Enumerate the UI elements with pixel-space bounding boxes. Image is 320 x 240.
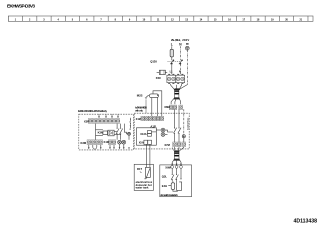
svg-text:Q1DI: Q1DI — [150, 60, 157, 64]
svg-text:F2C: F2C — [156, 76, 162, 80]
svg-text:E4H: E4H — [162, 184, 167, 188]
svg-text:X7M: X7M — [164, 143, 170, 147]
svg-text:X5A: X5A — [139, 140, 144, 144]
svg-text:with only: with only — [135, 109, 143, 112]
svg-text:R1T: R1T — [137, 167, 142, 171]
cable 2 hatched — [174, 152, 179, 159]
sensor box R1T — [134, 164, 153, 190]
wire L drop — [171, 46, 173, 49]
earth circle in control box — [182, 135, 185, 142]
wire funnel from cable 2 — [172, 159, 181, 165]
fuse F1 on L — [170, 49, 173, 57]
earth circle in left box — [124, 132, 130, 140]
wire N dash-dot — [179, 46, 181, 60]
left dashed control box — [79, 114, 134, 150]
terminal row X7M — [173, 142, 186, 147]
earth PE mark — [186, 43, 189, 44]
wires in tank — [171, 168, 181, 183]
svg-text:for EKLG / SOLDES + ETCAO with: for EKLG / SOLDES + ETCAO with only — [78, 110, 108, 113]
svg-text:N: N — [179, 69, 181, 73]
relay K3M — [96, 124, 121, 140]
svg-text:EKHWSP-D3V3: EKHWSP-D3V3 — [7, 4, 35, 9]
control wires with contacts K1M — [174, 109, 184, 142]
svg-text:M2S: M2S — [137, 93, 143, 97]
right dashed control box — [134, 113, 189, 149]
wire PE dash-dot — [186, 50, 188, 84]
wire funnel to cable 1 — [171, 84, 188, 90]
svg-text:water tank: water tank — [136, 186, 149, 190]
field wiring arrowheads below left box — [88, 147, 130, 149]
plugs X3A/X4A — [151, 128, 173, 136]
terminal row X8M — [169, 105, 182, 110]
field wiring drops into X3M — [98, 114, 119, 118]
fuse F2C — [156, 70, 168, 80]
left box vertical wires with contacts — [116, 124, 124, 140]
pcb A1P — [137, 124, 157, 145]
valve M2S — [137, 91, 162, 117]
svg-text:K2M: K2M — [81, 141, 87, 145]
cable 1 sheath caps — [174, 88, 180, 90]
svg-text:X1M: X1M — [136, 117, 141, 121]
ruler band — [8, 16, 313, 22]
arrow end of PE wire — [180, 178, 181, 180]
earth symbol circle — [185, 46, 189, 50]
lamp circles — [118, 140, 126, 144]
breaker Q1DI — [150, 60, 182, 75]
svg-text:L: L — [171, 43, 173, 47]
tank box — [160, 165, 192, 197]
terminal block X2M — [167, 74, 185, 84]
svg-text:X8M: X8M — [164, 105, 170, 109]
svg-text:domestic hot water tank: domestic hot water tank — [160, 194, 178, 197]
wire funnel from cable 1 — [171, 98, 181, 105]
svg-text:230V: 230V — [182, 38, 189, 42]
svg-text:Control box: Control box — [129, 117, 132, 130]
cable 2 sheath caps — [174, 150, 179, 152]
wire L to breaker — [171, 57, 173, 60]
svg-text:Q3L: Q3L — [162, 175, 168, 179]
wires from X5A to R1T — [146, 144, 148, 167]
svg-text:Control box: Control box — [186, 117, 189, 130]
jumper loop under K2M — [89, 144, 124, 149]
svg-text:X13A: X13A — [140, 132, 147, 136]
svg-text:4D113438: 4D113438 — [294, 218, 318, 224]
svg-text:2N~, 50Hz,: 2N~, 50Hz, — [171, 38, 181, 42]
cable 1 hatched — [175, 90, 179, 98]
wire funnel to cable 2 — [172, 147, 184, 152]
